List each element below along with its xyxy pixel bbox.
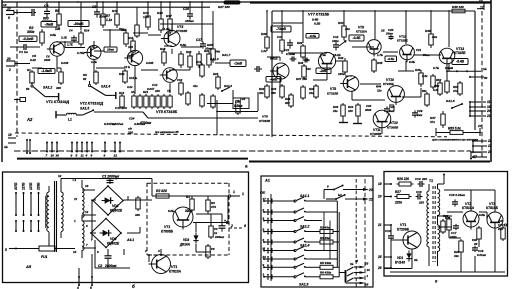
svg-text:-0.5Б: -0.5Б: [387, 57, 394, 61]
svg-text:24к: 24к: [344, 27, 350, 31]
svg-text:1.7Б: 1.7Б: [67, 43, 73, 47]
svg-text:C20: C20: [235, 100, 241, 104]
svg-text:1.2к: 1.2к: [143, 15, 149, 19]
svg-text:1.1к: 1.1к: [106, 18, 112, 22]
svg-text:3000: 3000: [365, 108, 372, 112]
svg-text:12: 12: [479, 0, 483, 4]
svg-text:47к: 47к: [452, 89, 458, 93]
svg-text:5.6к: 5.6к: [422, 74, 428, 78]
svg-text:-0.2мВ: -0.2мВ: [23, 37, 34, 41]
svg-text:R21: R21: [143, 90, 149, 94]
svg-text:15: 15: [365, 262, 369, 266]
svg-text:19: 19: [8, 133, 12, 137]
svg-text:щит устанавливается при мон: щит устанавливается при монтаже: [432, 139, 478, 142]
svg-text:ВЧ143: ВЧ143: [395, 261, 405, 265]
svg-text:R2 820: R2 820: [156, 189, 167, 193]
svg-text:220к: 220к: [394, 201, 402, 205]
svg-text:R45: R45: [377, 61, 383, 65]
svg-text:1Б: 1Б: [350, 262, 353, 266]
svg-text:R4 43к: R4 43к: [320, 236, 330, 240]
svg-text:20к: 20к: [431, 35, 437, 39]
svg-text:5.8Б: 5.8Б: [180, 43, 186, 47]
svg-text:R42: R42: [338, 56, 344, 60]
svg-text:FU1: FU1: [41, 255, 48, 259]
svg-text:R46: R46: [415, 68, 421, 72]
svg-text:R27 180: R27 180: [218, 5, 230, 9]
svg-text:VT5 КТ315Б: VT5 КТ315Б: [156, 110, 178, 114]
svg-text:0.22: 0.22: [30, 58, 36, 62]
svg-text:C21: C21: [416, 48, 422, 52]
svg-text:0.047мк: 0.047мк: [104, 122, 116, 126]
svg-text:КТ305Б: КТ305Б: [387, 126, 399, 130]
svg-text:1: 1: [242, 192, 244, 196]
svg-text:1Б: 1Б: [483, 67, 487, 71]
svg-text:VD1: VD1: [397, 256, 403, 260]
svg-text:КЦ402Е: КЦ402Е: [110, 209, 123, 213]
svg-text:229Б: 229Б: [37, 182, 41, 191]
svg-text:0.5мк: 0.5мк: [234, 104, 243, 108]
svg-text:КТ305Б: КТ305Б: [370, 132, 382, 136]
svg-text:C10 100: C10 100: [115, 106, 127, 110]
svg-text:200мк: 200мк: [214, 235, 224, 239]
svg-text:8: 8: [91, 154, 93, 158]
svg-text:SA1.6: SA1.6: [224, 84, 232, 88]
svg-text:0.8Б: 0.8Б: [50, 33, 56, 37]
svg-text:20мк: 20мк: [385, 31, 393, 35]
svg-text:12к: 12к: [377, 89, 382, 93]
svg-text:21: 21: [486, 114, 491, 118]
svg-text:10: 10: [73, 250, 77, 254]
svg-text:20: 20: [368, 188, 373, 192]
svg-text:VT8: VT8: [330, 87, 336, 91]
svg-text:R38: R38: [298, 61, 304, 65]
svg-text:С24: С24: [129, 117, 135, 121]
svg-text:12: 12: [58, 174, 62, 178]
svg-text:220: 220: [421, 177, 427, 181]
svg-text:R52: R52: [436, 78, 442, 82]
svg-text:4: 4: [157, 249, 160, 253]
svg-text:C14: C14: [385, 229, 391, 233]
svg-text:КТ315А: КТ315А: [356, 30, 367, 34]
svg-text:при напряжении 8В: при напряжении 8В: [155, 130, 179, 134]
svg-text:КЦ402Е: КЦ402Е: [107, 242, 120, 246]
svg-text:А2: А2: [26, 117, 33, 122]
svg-text:VT1: VT1: [400, 223, 406, 227]
svg-text:C16: C16: [415, 177, 421, 181]
svg-text:R20: R20: [186, 50, 192, 54]
svg-text:R19: R19: [196, 60, 202, 64]
svg-text:16: 16: [85, 184, 89, 188]
svg-text:R29: R29: [443, 214, 449, 218]
svg-text:2000мк: 2000мк: [104, 264, 117, 268]
svg-text:C10: C10: [177, 78, 183, 82]
svg-text:620: 620: [285, 101, 290, 105]
svg-text:C4: C4: [69, 29, 73, 33]
svg-text:22: 22: [487, 144, 492, 148]
svg-text:VD2: VD2: [110, 237, 117, 241]
svg-text:50: 50: [484, 76, 488, 80]
svg-text:30: 30: [56, 154, 60, 158]
svg-text:R26: R26: [213, 72, 219, 76]
svg-text:3.1Б: 3.1Б: [61, 36, 67, 40]
svg-text:VD1: VD1: [112, 204, 119, 208]
svg-text:1.7Б: 1.7Б: [377, 53, 383, 57]
svg-text:R18: R18: [160, 47, 166, 51]
svg-text:R1: R1: [27, 68, 31, 72]
svg-text:12: 12: [114, 154, 118, 158]
svg-text:1Б: 1Б: [4, 145, 8, 149]
svg-text:307Б: 307Б: [14, 182, 18, 190]
svg-text:1мк: 1мк: [417, 113, 423, 117]
svg-text:SA1.5: SA1.5: [80, 107, 89, 111]
svg-text:А5: А5: [25, 264, 32, 269]
svg-text:27: 27: [477, 124, 482, 128]
svg-text:6: 6: [244, 224, 246, 228]
svg-text:C16: C16: [183, 7, 189, 11]
svg-text:7: 7: [46, 154, 48, 158]
svg-text:21: 21: [368, 198, 373, 202]
svg-text:21: 21: [377, 223, 382, 227]
svg-text:8.5Б: 8.5Б: [409, 60, 415, 64]
svg-text:11: 11: [487, 100, 491, 104]
svg-text:5.6к: 5.6к: [433, 88, 439, 92]
svg-text:100н: 100н: [332, 39, 339, 43]
svg-text:SA1.2: SA1.2: [43, 85, 52, 89]
svg-text:3300: 3300: [44, 58, 51, 62]
svg-text:КТ209Б: КТ209Б: [397, 228, 410, 232]
svg-text:0.065: 0.065: [146, 61, 154, 65]
svg-text:24к: 24к: [332, 109, 338, 113]
svg-text:390к: 390к: [27, 30, 35, 34]
svg-text:25: 25: [487, 150, 492, 154]
svg-text:50: 50: [26, 87, 30, 91]
svg-text:SA1.2: SA1.2: [300, 225, 310, 229]
svg-text:9: 9: [71, 154, 73, 158]
svg-text:КТ815Б: КТ815Б: [486, 206, 499, 210]
svg-text:1Б: 1Б: [381, 29, 385, 33]
svg-text:10мк: 10мк: [205, 47, 213, 51]
svg-text:R13: R13: [157, 11, 163, 15]
svg-text:800: 800: [43, 17, 49, 21]
svg-text:8.5Б: 8.5Б: [168, 209, 174, 213]
svg-text:C18 0.01мк: C18 0.01мк: [449, 193, 465, 197]
svg-text:10мк: 10мк: [107, 48, 115, 52]
svg-text:КТ815А: КТ815А: [462, 206, 475, 210]
svg-text:R30: R30: [261, 32, 267, 36]
svg-text:20: 20: [473, 242, 478, 246]
svg-text:VT2 КТ3102Д: VT2 КТ3102Д: [80, 101, 104, 105]
svg-text:А1: А1: [264, 179, 270, 183]
svg-text:VT1: VT1: [171, 265, 177, 269]
svg-text:11: 11: [81, 154, 84, 158]
svg-text:5: 5: [76, 154, 78, 158]
svg-text:680: 680: [271, 91, 276, 95]
svg-text:VT7 КТ315Б: VT7 КТ315Б: [308, 13, 330, 17]
svg-text:10: 10: [7, 7, 11, 11]
svg-text:24к: 24к: [214, 50, 220, 54]
svg-text:10к: 10к: [309, 91, 314, 95]
svg-text:КТ315Б: КТ315Б: [259, 119, 271, 123]
svg-text:24: 24: [486, 109, 491, 113]
svg-text:15: 15: [355, 259, 358, 263]
svg-text:16: 16: [365, 283, 369, 287]
svg-text:2: 2: [8, 68, 11, 72]
svg-text:КТ315Б: КТ315Б: [327, 92, 339, 96]
svg-text:SA1.3: SA1.3: [299, 283, 309, 287]
svg-text:КТ315Б: КТ315Б: [454, 51, 466, 55]
svg-text:11.2Б: 11.2Б: [162, 27, 170, 31]
svg-text:VT8: VT8: [262, 115, 268, 119]
svg-text:C3: C3: [92, 5, 96, 9]
svg-text:VD3: VD3: [183, 238, 189, 242]
svg-text:SA1.1: SA1.1: [300, 194, 310, 198]
svg-text:R11: R11: [128, 36, 134, 40]
svg-text:SA1.3: SA1.3: [210, 57, 219, 61]
svg-text:4: 4: [85, 154, 88, 158]
svg-text:R3 43к: R3 43к: [320, 225, 330, 229]
svg-text:К2Б: К2Б: [260, 191, 265, 195]
svg-text:C15: C15: [416, 190, 422, 194]
svg-text:0.8Б: 0.8Б: [479, 213, 485, 217]
svg-text:R55 5.6к: R55 5.6к: [448, 127, 461, 131]
svg-text:SA1.5: SA1.5: [446, 99, 455, 103]
svg-text:а: а: [245, 164, 248, 169]
svg-text:120к: 120к: [338, 72, 345, 76]
svg-text:4.8Б: 4.8Б: [90, 60, 97, 64]
svg-text:T1: T1: [429, 179, 433, 183]
svg-text:0.047: 0.047: [147, 87, 155, 91]
svg-text:R26 220: R26 220: [397, 177, 409, 181]
svg-text:-1.6мВ: -1.6мВ: [41, 69, 52, 73]
svg-text:C9: C9: [44, 4, 48, 8]
svg-text:КТ315Б: КТ315Б: [176, 29, 188, 33]
svg-text:0.048: 0.048: [61, 61, 69, 65]
svg-text:R13: R13: [119, 72, 125, 76]
svg-text:КТ805Б: КТ805Б: [161, 230, 174, 234]
svg-text:127Б: 127Б: [22, 182, 26, 190]
svg-text:41к: 41к: [192, 84, 198, 88]
svg-text:20: 20: [377, 195, 382, 199]
svg-text:R14: R14: [119, 91, 125, 95]
svg-text:R6 430к: R6 430к: [320, 271, 332, 275]
svg-text:470: 470: [210, 205, 216, 209]
svg-text:R5 430к: R5 430к: [320, 261, 332, 265]
svg-text:14: 14: [499, 219, 503, 223]
svg-text:4.2к: 4.2к: [126, 85, 133, 89]
svg-text:-30мВ: -30мВ: [73, 22, 84, 26]
svg-text:11: 11: [74, 197, 77, 201]
svg-text:А4.1: А4.1: [126, 238, 134, 242]
svg-text:-0.8Б: -0.8Б: [352, 36, 361, 40]
svg-text:107Б: 107Б: [29, 182, 33, 190]
svg-text:-1мВ: -1мВ: [234, 62, 243, 66]
svg-text:10: 10: [367, 268, 371, 272]
svg-text:Д814А: Д814А: [179, 243, 191, 247]
svg-text:1.3Б: 1.3Б: [320, 53, 326, 57]
svg-text:L1: L1: [68, 117, 72, 121]
svg-text:0.2В: 0.2В: [314, 22, 321, 26]
svg-text:-73мВ: -73мВ: [276, 27, 286, 31]
svg-text:4.601мк: 4.601мк: [133, 122, 146, 126]
svg-text:C17: C17: [196, 38, 202, 42]
svg-text:0.7Б: 0.7Б: [89, 45, 95, 49]
svg-text:0.01мк: 0.01мк: [477, 253, 487, 257]
svg-text:330: 330: [128, 131, 133, 135]
svg-text:106: 106: [155, 89, 160, 93]
svg-text:56к: 56к: [422, 89, 427, 93]
svg-text:5: 5: [5, 248, 7, 252]
svg-text:300: 300: [56, 86, 61, 90]
svg-text:R27: R27: [395, 190, 401, 194]
svg-text:КТ315Б: КТ315Б: [383, 82, 394, 86]
svg-text:3А: 3А: [131, 90, 135, 94]
svg-text:25: 25: [377, 255, 382, 259]
svg-text:23: 23: [487, 139, 492, 143]
svg-text:10к: 10к: [259, 91, 264, 95]
svg-text:R39: R39: [297, 41, 303, 45]
svg-text:SA1.7: SA1.7: [222, 53, 231, 57]
svg-text:R14: R14: [84, 29, 90, 33]
svg-text:VT10: VT10: [390, 121, 398, 125]
svg-text:220: 220: [418, 201, 424, 205]
svg-text:R1: R1: [186, 195, 190, 199]
svg-text:1: 1: [233, 190, 235, 194]
svg-text:R48: R48: [425, 29, 431, 33]
svg-text:-5.4В: -5.4В: [456, 60, 465, 64]
svg-text:0.7Б: 0.7Б: [433, 66, 439, 70]
svg-text:C1 1м: C1 1м: [19, 50, 29, 54]
svg-text:43к: 43к: [453, 254, 459, 258]
svg-text:3Б: 3Б: [414, 258, 418, 262]
svg-text:Б4: Б4: [338, 193, 342, 197]
svg-text:SA1.4: SA1.4: [300, 244, 310, 248]
svg-text:6: 6: [104, 154, 106, 158]
svg-text:13: 13: [85, 210, 89, 214]
svg-text:20: 20: [6, 57, 11, 61]
svg-text:160мк: 160мк: [185, 19, 194, 23]
svg-text:R28: R28: [207, 43, 213, 47]
svg-text:б: б: [132, 284, 135, 289]
svg-text:12 Б: 12 Б: [124, 65, 130, 69]
svg-text:-3мВ: -3мВ: [45, 23, 54, 27]
svg-text:10к: 10к: [55, 27, 61, 31]
svg-text:47к: 47к: [429, 120, 435, 124]
svg-text:C2: C2: [98, 264, 102, 268]
svg-text:2: 2: [230, 224, 233, 228]
svg-text:1.2к: 1.2к: [261, 49, 267, 53]
svg-text:9: 9: [8, 16, 10, 20]
svg-text:300: 300: [135, 213, 140, 217]
svg-text:-0.5Б: -0.5Б: [309, 34, 316, 38]
svg-text:R17: R17: [166, 14, 172, 18]
svg-text:VT1: VT1: [164, 225, 170, 229]
svg-text:-4мВ: -4мВ: [270, 77, 278, 81]
svg-text:VT1 КТ3102Д: VT1 КТ3102Д: [46, 100, 70, 104]
svg-text:0.76Б: 0.76Б: [77, 51, 84, 55]
svg-text:19: 19: [378, 182, 382, 186]
svg-text:3А1.Б: 3А1.Б: [129, 76, 137, 80]
svg-text:Р6: Р6: [211, 247, 215, 251]
svg-text:КТ815А: КТ815А: [169, 270, 182, 274]
svg-text:R37 160: R37 160: [296, 77, 307, 81]
svg-text:10: 10: [51, 154, 55, 158]
svg-text:R48 160: R48 160: [452, 5, 464, 9]
svg-text:R41: R41: [338, 21, 344, 25]
svg-text:100: 100: [348, 109, 353, 113]
svg-text:SA1.4: SA1.4: [101, 85, 110, 89]
svg-text:510: 510: [306, 67, 311, 71]
svg-text:82: 82: [83, 77, 87, 81]
svg-text:26: 26: [377, 266, 382, 270]
